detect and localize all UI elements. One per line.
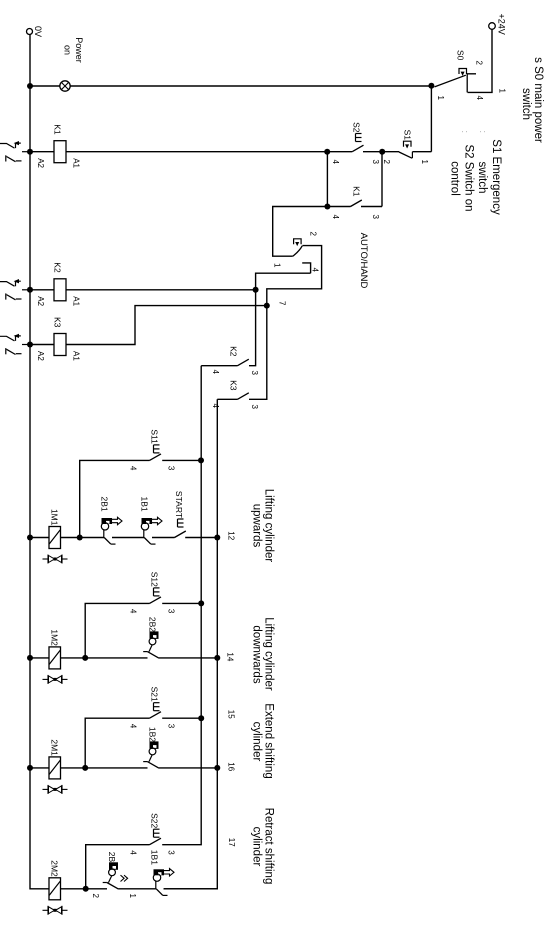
- wire rung 12 segment b: [112, 537, 144, 539]
- node rung 16 top on K3 bus: [214, 765, 220, 771]
- wire K1 contact bottom: [327, 206, 350, 208]
- wire 2M2 rung lower: [86, 888, 107, 890]
- wire S2 top stub: [363, 151, 382, 153]
- svg-text:3: 3: [371, 160, 380, 165]
- relay coil K3: [54, 334, 66, 356]
- wire K2 to 0V: [30, 289, 54, 291]
- svg-text:on: on: [63, 45, 73, 55]
- selector pin4 stub: [302, 263, 310, 273]
- svg-text::: :: [460, 131, 470, 134]
- wire S11 drop lower to rung 12: [80, 460, 150, 537]
- solenoid coil 2M2: [49, 878, 61, 900]
- wire K1 to 0V: [30, 151, 54, 153]
- svg-text:S1: S1: [403, 130, 413, 141]
- svg-text:S22: S22: [150, 813, 160, 828]
- node 1M2 0V: [27, 655, 33, 661]
- contact K1 NO: [351, 200, 362, 207]
- node S11 drop: [198, 457, 204, 463]
- svg-text:Power: Power: [74, 37, 84, 63]
- node rung 12 S11 join: [77, 535, 83, 541]
- svg-text:K1: K1: [53, 124, 63, 135]
- wire K1 rung top stub: [412, 151, 431, 153]
- svg-text:Extend shifting: Extend shifting: [263, 703, 275, 778]
- contact K2 NO: [238, 359, 249, 366]
- svg-text:S2: S2: [352, 122, 362, 133]
- contact references K1: [22, 151, 30, 153]
- node rung 16 S21 join: [82, 765, 88, 771]
- terminal 0V: [27, 29, 33, 35]
- wire rung 14 to coil: [61, 657, 86, 659]
- node S0 output on rail: [428, 83, 434, 89]
- svg-text:12: 12: [227, 531, 236, 540]
- wire 2M2 to coil: [61, 888, 86, 890]
- wire selector entry: [273, 207, 328, 257]
- svg-text:1B1: 1B1: [140, 497, 150, 512]
- svg-text:2: 2: [91, 894, 100, 899]
- wire rung 12 segment c: [80, 537, 104, 539]
- contact K3 NO: [238, 393, 249, 400]
- relay coil K1: [54, 141, 66, 163]
- wire K2 output bus: [162, 366, 201, 845]
- switch S0 main power (closed, with detent): [467, 74, 476, 93]
- wire top rail: [430, 86, 432, 152]
- svg-text:S21: S21: [150, 687, 160, 702]
- svg-text:S1 Emergency: S1 Emergency: [490, 139, 502, 215]
- svg-text:2: 2: [475, 61, 484, 66]
- solenoid coil 1M1: [49, 527, 61, 549]
- svg-text:A1: A1: [72, 158, 81, 168]
- svg-text:4: 4: [331, 215, 340, 220]
- node 1M1 0V: [27, 535, 33, 541]
- wire K3 coil riser: [66, 306, 267, 345]
- switch S12 NO pushbutton: [150, 597, 162, 604]
- svg-text:1: 1: [436, 96, 445, 101]
- svg-text:4: 4: [211, 404, 220, 409]
- svg-text:control: control: [449, 161, 461, 196]
- wire S1 to node: [382, 151, 399, 153]
- svg-text:S2 Switch on: S2 Switch on: [463, 144, 475, 211]
- wire S2 bottom: [327, 151, 352, 153]
- node rung 12 top on K3 bus: [214, 535, 220, 541]
- node lamp to 0V rail: [27, 83, 33, 89]
- svg-text:cylinder: cylinder: [251, 827, 263, 867]
- svg-text::: :: [478, 131, 488, 134]
- svg-text:AUTO/HAND: AUTO/HAND: [358, 233, 369, 289]
- svg-text:2B2: 2B2: [148, 617, 158, 632]
- node rung 14 S12 join: [82, 655, 88, 661]
- svg-text:4: 4: [129, 724, 138, 729]
- svg-text:switch: switch: [520, 88, 532, 120]
- switch S11 NO pushbutton: [150, 454, 162, 461]
- wire 2M1 to 0V: [30, 767, 49, 769]
- wire rung 16 to coil: [61, 767, 86, 769]
- svg-text:S11: S11: [150, 429, 160, 444]
- svg-text:4: 4: [129, 466, 138, 471]
- svg-text:Retract shifting: Retract shifting: [263, 808, 275, 885]
- svg-text:17: 17: [227, 838, 236, 847]
- node S1 output: [379, 149, 385, 155]
- wire S21 drop upper: [162, 717, 201, 719]
- relay coil K2: [54, 279, 66, 301]
- wire S22 lower to 2M2 rung: [86, 845, 150, 889]
- svg-text:K3: K3: [229, 380, 239, 391]
- wire rung 16 lower: [85, 767, 147, 769]
- wire 1M1 to 0V: [30, 537, 49, 539]
- wire parallel branch upper: [381, 152, 383, 207]
- svg-text:Lifting cylinder: Lifting cylinder: [263, 617, 275, 691]
- svg-text:3: 3: [250, 405, 259, 410]
- wire rung 14 upper: [159, 657, 217, 659]
- node S2 bottom: [324, 149, 330, 155]
- node K3 0V: [27, 342, 33, 348]
- svg-text:K2: K2: [53, 262, 63, 273]
- node 2M1 0V: [27, 765, 33, 771]
- wire K3 contact bottom: [217, 398, 237, 400]
- contact references K2: [22, 289, 30, 291]
- wire rung 12 segment a: [152, 537, 175, 539]
- contact references K3: [22, 344, 30, 346]
- svg-text:A2: A2: [36, 351, 45, 361]
- node K2 coil riser on HAND line: [253, 287, 259, 293]
- wire S12 drop upper: [162, 602, 201, 604]
- svg-text:3: 3: [167, 466, 176, 471]
- switch S1 emergency NC with detent: [411, 152, 413, 159]
- svg-text:1: 1: [128, 894, 137, 899]
- node S21 drop: [198, 715, 204, 721]
- svg-text:A2: A2: [36, 296, 45, 306]
- wire K3 output bus: [164, 399, 218, 889]
- svg-text:1M2: 1M2: [50, 629, 60, 646]
- svg-text:cylinder: cylinder: [251, 722, 263, 762]
- wire +24V feed to S0: [468, 29, 493, 92]
- switch S21 NO pushbutton: [150, 712, 162, 719]
- svg-text:4: 4: [475, 96, 484, 101]
- wire 0V rail: [29, 34, 31, 889]
- wire K1 contact top stub: [361, 206, 382, 208]
- node S12 drop: [198, 600, 204, 606]
- node K2 0V: [27, 287, 33, 293]
- svg-text:2M1: 2M1: [50, 739, 60, 756]
- svg-text:3: 3: [167, 724, 176, 729]
- svg-text:S12: S12: [150, 572, 160, 587]
- wire 1M2 to 0V: [30, 657, 49, 659]
- node 2M2 S22 join: [83, 886, 89, 892]
- wire HAND line to K2 contact: [249, 273, 311, 366]
- svg-text:A1: A1: [72, 351, 81, 361]
- wire lamp rung lower: [30, 85, 60, 87]
- svg-text:Lifting cylinder: Lifting cylinder: [263, 489, 275, 563]
- wire S21 drop lower to rung 16: [85, 718, 149, 768]
- svg-text:16: 16: [227, 762, 236, 771]
- svg-text:7: 7: [278, 301, 287, 306]
- node rung 14 top on K3 bus: [214, 655, 220, 661]
- svg-text:3: 3: [167, 609, 176, 614]
- svg-text:K3: K3: [53, 317, 63, 328]
- svg-text:K1: K1: [352, 186, 362, 197]
- svg-text:4: 4: [311, 268, 320, 273]
- wire K3 to 0V: [30, 344, 54, 346]
- svg-text:4: 4: [211, 370, 220, 375]
- wire rung 12 upper: [185, 537, 217, 539]
- wire rung 16 upper: [159, 767, 217, 769]
- wire 2M2 rung mid: [119, 888, 157, 890]
- solenoid coil 2M1: [49, 757, 61, 779]
- svg-text:1M1: 1M1: [50, 509, 60, 526]
- indicator lamp Power on: [60, 81, 70, 91]
- switch S2 NO pushbutton: [352, 145, 363, 152]
- svg-text:4: 4: [129, 609, 138, 614]
- svg-text:+24V: +24V: [497, 14, 507, 35]
- solenoid coil 1M2: [49, 647, 61, 669]
- wire rung 14 lower: [85, 657, 147, 659]
- svg-text:15: 15: [227, 710, 236, 719]
- svg-text:START: START: [174, 491, 184, 518]
- svg-text:3: 3: [167, 850, 176, 855]
- svg-text:K2: K2: [229, 346, 239, 357]
- wire K2 coil riser: [66, 289, 256, 291]
- svg-text:A1: A1: [72, 296, 81, 306]
- wire selector pin2 AUTO to node 7: [267, 246, 322, 306]
- wire rung 12 to coil: [61, 537, 80, 539]
- node 7 AUTO line: [264, 303, 270, 309]
- wire 2M2 to 0V rail end: [30, 888, 49, 890]
- wire S12 drop lower to rung 14: [85, 603, 149, 658]
- svg-text:0V: 0V: [33, 26, 43, 37]
- svg-text:1: 1: [420, 160, 429, 165]
- svg-text:3: 3: [371, 215, 380, 220]
- switch START NO pushbutton: [175, 531, 186, 538]
- svg-text:2B1: 2B1: [100, 497, 110, 512]
- svg-text:1: 1: [498, 89, 507, 94]
- svg-text:downwards: downwards: [251, 625, 263, 683]
- svg-text:1: 1: [273, 263, 282, 268]
- svg-text:4: 4: [129, 850, 138, 855]
- svg-text:A2: A2: [36, 158, 45, 168]
- wire AUTO line to K3 contact: [249, 306, 267, 400]
- node K1 contact output: [324, 204, 330, 210]
- svg-text:4: 4: [331, 160, 340, 165]
- node K1 0V: [27, 149, 33, 155]
- selector AUTO/HAND changeover switch: [293, 246, 302, 256]
- svg-text:1B2: 1B2: [148, 727, 158, 742]
- switch S22 NO pushbutton: [150, 838, 162, 845]
- wire 2M2 rung upper: [164, 888, 217, 890]
- svg-text:S0: S0: [456, 50, 466, 61]
- wire K1 rung to coil: [66, 151, 327, 153]
- wire lamp rung upper: [70, 85, 431, 87]
- wire parallel branch lower: [326, 152, 328, 207]
- terminal +24V: [489, 23, 496, 30]
- svg-text:14: 14: [226, 652, 235, 661]
- wire K2 contact bottom: [201, 365, 237, 367]
- wire S11 drop upper: [162, 459, 201, 461]
- svg-text:2: 2: [309, 232, 318, 237]
- svg-text:switch: switch: [476, 162, 488, 194]
- svg-text:3: 3: [250, 371, 259, 376]
- svg-text:2M2: 2M2: [50, 860, 60, 877]
- svg-text:2: 2: [382, 160, 391, 165]
- svg-text:upwards: upwards: [251, 504, 263, 548]
- svg-text:1B1: 1B1: [150, 850, 160, 865]
- svg-text:s S0 main power: s S0 main power: [532, 57, 544, 143]
